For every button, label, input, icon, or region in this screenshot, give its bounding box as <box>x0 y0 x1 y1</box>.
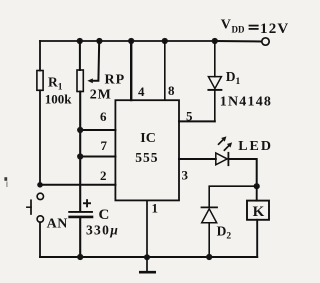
wire RP wiper <box>92 41 99 81</box>
svg-text:2M: 2M <box>90 87 112 102</box>
node pin7 junction <box>77 153 83 159</box>
IC U1 555 timer <box>115 100 179 200</box>
node C at bottom rail <box>77 254 83 260</box>
potentiometer RP <box>77 70 83 92</box>
svg-text:DD: DD <box>232 25 245 35</box>
wire left rail upper <box>39 41 41 71</box>
svg-text:330µ: 330µ <box>86 223 119 238</box>
svg-text:C: C <box>99 207 110 223</box>
wire pin 8 <box>164 41 166 100</box>
node RP top <box>77 38 83 44</box>
wire VDD feed to terminal <box>215 40 262 43</box>
wire LED to K branch <box>228 159 256 186</box>
label + (capacitor polarity) <box>83 199 91 207</box>
svg-text:LED: LED <box>238 139 273 154</box>
scan artifact left edge <box>4 177 7 181</box>
resistor R1 <box>37 71 43 91</box>
diode D2 <box>202 207 218 257</box>
node K/D2 junction <box>254 183 260 189</box>
wire RP bottom / timing node <box>79 92 81 212</box>
wire pin 6 <box>80 129 115 131</box>
terminal VDD <box>262 38 269 45</box>
node pin2/switch junction <box>37 182 43 188</box>
wire pin 2 <box>40 184 115 186</box>
node pin1 ground junction <box>144 254 150 260</box>
wiper arrowhead <box>87 78 92 83</box>
svg-text:IC: IC <box>140 131 156 146</box>
node D1 top <box>212 38 218 44</box>
svg-text:8: 8 <box>168 83 175 98</box>
wire switch to bottom rail <box>39 222 41 257</box>
wire pin 3 <box>179 158 216 160</box>
wire C bottom lead <box>79 218 81 257</box>
svg-text:7: 7 <box>101 138 108 153</box>
svg-text:K: K <box>253 204 265 220</box>
switch AN <box>27 193 44 222</box>
wire left rail middle <box>39 90 41 184</box>
wire pin 7 <box>80 156 115 158</box>
svg-text:555: 555 <box>135 150 158 165</box>
LED <box>216 136 232 165</box>
node pin8 top <box>162 38 168 44</box>
label VDD = 12V <box>221 18 290 37</box>
node wiper top <box>96 38 102 44</box>
svg-text:1N4148: 1N4148 <box>220 94 272 109</box>
relay K box <box>247 201 269 220</box>
node pin6 junction <box>77 127 83 133</box>
wire junction to K <box>256 186 258 200</box>
svg-text:3: 3 <box>182 168 189 183</box>
svg-text:6: 6 <box>100 109 107 124</box>
wire top rail <box>40 40 215 42</box>
svg-text:4: 4 <box>138 84 145 99</box>
ground <box>140 257 154 272</box>
wire pin 1 <box>146 200 148 257</box>
wire junction to D2 <box>209 186 257 207</box>
svg-text:1: 1 <box>152 201 159 216</box>
wire pin 4 <box>130 41 132 100</box>
node pin4 top <box>128 38 134 44</box>
svg-text:AN: AN <box>47 217 68 232</box>
capacitor C <box>69 212 92 217</box>
svg-text:RP: RP <box>105 73 126 88</box>
svg-text:5: 5 <box>186 109 193 124</box>
wire RP top lead <box>79 41 81 70</box>
node D2 bottom <box>206 254 212 260</box>
svg-text:2: 2 <box>100 168 107 183</box>
diode D1 <box>208 41 221 121</box>
svg-text:100k: 100k <box>45 91 73 106</box>
wire pin 5 <box>179 120 215 122</box>
wire bottom rail <box>40 256 257 258</box>
wire K to bottom rail <box>256 220 258 257</box>
svg-text:12V: 12V <box>260 21 289 37</box>
svg-text:V: V <box>221 18 231 33</box>
